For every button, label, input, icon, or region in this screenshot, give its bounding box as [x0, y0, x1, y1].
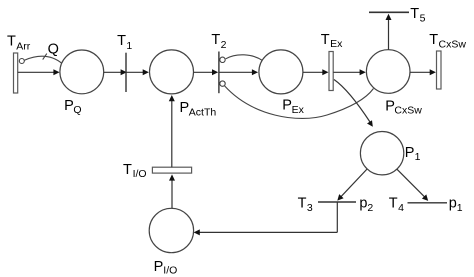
svg-text:Q: Q [73, 104, 81, 116]
label T_CxSw [429, 32, 466, 51]
inhibitor arc P_Ex to T_2 [226, 55, 263, 61]
wire P_I/O to T_I/O [169, 174, 175, 208]
arc Q from T_Arr dot to P_Q [24, 54, 62, 64]
transition T_1 (line) [125, 53, 127, 92]
wire T_2 to P_Ex [219, 69, 258, 75]
svg-text:p: p [449, 196, 457, 212]
wire P_CxSw to T_5 [386, 14, 392, 50]
wire T_1 to P_ActTh [126, 69, 149, 75]
svg-text:P: P [405, 145, 415, 161]
inhibitor dot at T_Arr [19, 59, 24, 64]
svg-text:1: 1 [415, 151, 421, 163]
inhibitor dot T_2 bottom [220, 81, 225, 86]
transition T_2 (line) [218, 52, 220, 94]
place P_CxSw [366, 50, 410, 94]
wire P_Ex to T_Ex [303, 69, 329, 75]
svg-text:3: 3 [307, 202, 313, 214]
svg-text:T: T [389, 195, 398, 211]
svg-text:P: P [180, 100, 190, 116]
svg-text:T: T [321, 32, 330, 48]
place P_1 [360, 132, 403, 175]
label P_I/O [154, 259, 178, 277]
wire P_CxSw to T_CxSw [410, 69, 436, 75]
svg-text:T: T [298, 196, 307, 212]
label P_ActTh [180, 100, 217, 119]
transition T_Arr (bar) [14, 53, 18, 93]
inhibitor arc P_CxSw to T_2 [225, 86, 374, 119]
label T_Arr [7, 34, 31, 53]
place P_ActTh [150, 50, 194, 94]
arc T_Ex to P_1 [334, 80, 373, 127]
wire bottom bus to P_I/O [194, 229, 338, 235]
place P_I/O [149, 208, 193, 252]
svg-text:T: T [117, 33, 126, 49]
svg-text:1: 1 [457, 202, 463, 214]
svg-text:2: 2 [367, 202, 373, 214]
svg-text:T: T [429, 32, 438, 48]
place P_Q [60, 50, 104, 94]
svg-text:P: P [282, 98, 292, 114]
transition T_5 (line) [369, 11, 409, 13]
svg-text:P: P [154, 259, 164, 275]
label T_1 [117, 33, 132, 52]
label T_Ex [321, 32, 343, 50]
label p_2 [359, 196, 373, 215]
svg-text:T: T [123, 162, 132, 178]
transition T_4 (line) [408, 202, 448, 204]
svg-text:T: T [7, 34, 16, 50]
label p_1 [449, 196, 463, 215]
svg-text:T: T [410, 6, 419, 22]
place P_Ex [259, 50, 303, 94]
svg-text:1: 1 [126, 40, 132, 52]
wire T_Arr to P_Q [18, 69, 60, 75]
wire P_1 to T_3 [337, 169, 367, 201]
svg-text:ActTh: ActTh [189, 107, 217, 119]
svg-text:Arr: Arr [16, 41, 31, 53]
label P_1 [405, 145, 421, 163]
wire P_Q to T_1 [104, 69, 127, 75]
wire T_Ex to P_CxSw [333, 69, 365, 75]
label T_I/O [123, 162, 147, 180]
label Q [48, 42, 59, 58]
svg-text:I/O: I/O [133, 168, 147, 180]
svg-text:CxSw: CxSw [394, 104, 422, 116]
label T_4 [389, 195, 404, 214]
svg-text:Ex: Ex [292, 104, 305, 116]
wire P_1 to T_4 [397, 169, 428, 201]
transition T_Ex (bar) [329, 52, 333, 91]
svg-text:4: 4 [398, 202, 404, 214]
label T_2 [211, 32, 226, 51]
wire T_I/O to P_ActTh [169, 95, 175, 167]
svg-text:I/O: I/O [163, 264, 177, 276]
svg-text:P: P [64, 98, 74, 114]
label T_5 [410, 6, 425, 24]
transition T_3 (line) [318, 201, 356, 203]
transition T_CxSw (bar) [437, 51, 442, 89]
svg-text:2: 2 [221, 39, 227, 51]
wire P_ActTh to T_2 [194, 69, 219, 75]
svg-text:5: 5 [420, 13, 426, 25]
label P_CxSw [385, 98, 422, 116]
svg-text:Q: Q [48, 42, 59, 58]
label P_Ex [282, 98, 304, 117]
inhibitor dot T_2 top [220, 57, 225, 62]
transition T_I/O (bar) [152, 167, 191, 173]
label P_Q [64, 98, 81, 116]
label T_3 [298, 196, 313, 215]
svg-text:CxSw: CxSw [439, 39, 467, 51]
svg-text:T: T [211, 32, 220, 48]
svg-text:p: p [359, 196, 367, 212]
wire T_3 down to bottom bus [336, 202, 338, 232]
svg-text:Ex: Ex [330, 38, 343, 50]
